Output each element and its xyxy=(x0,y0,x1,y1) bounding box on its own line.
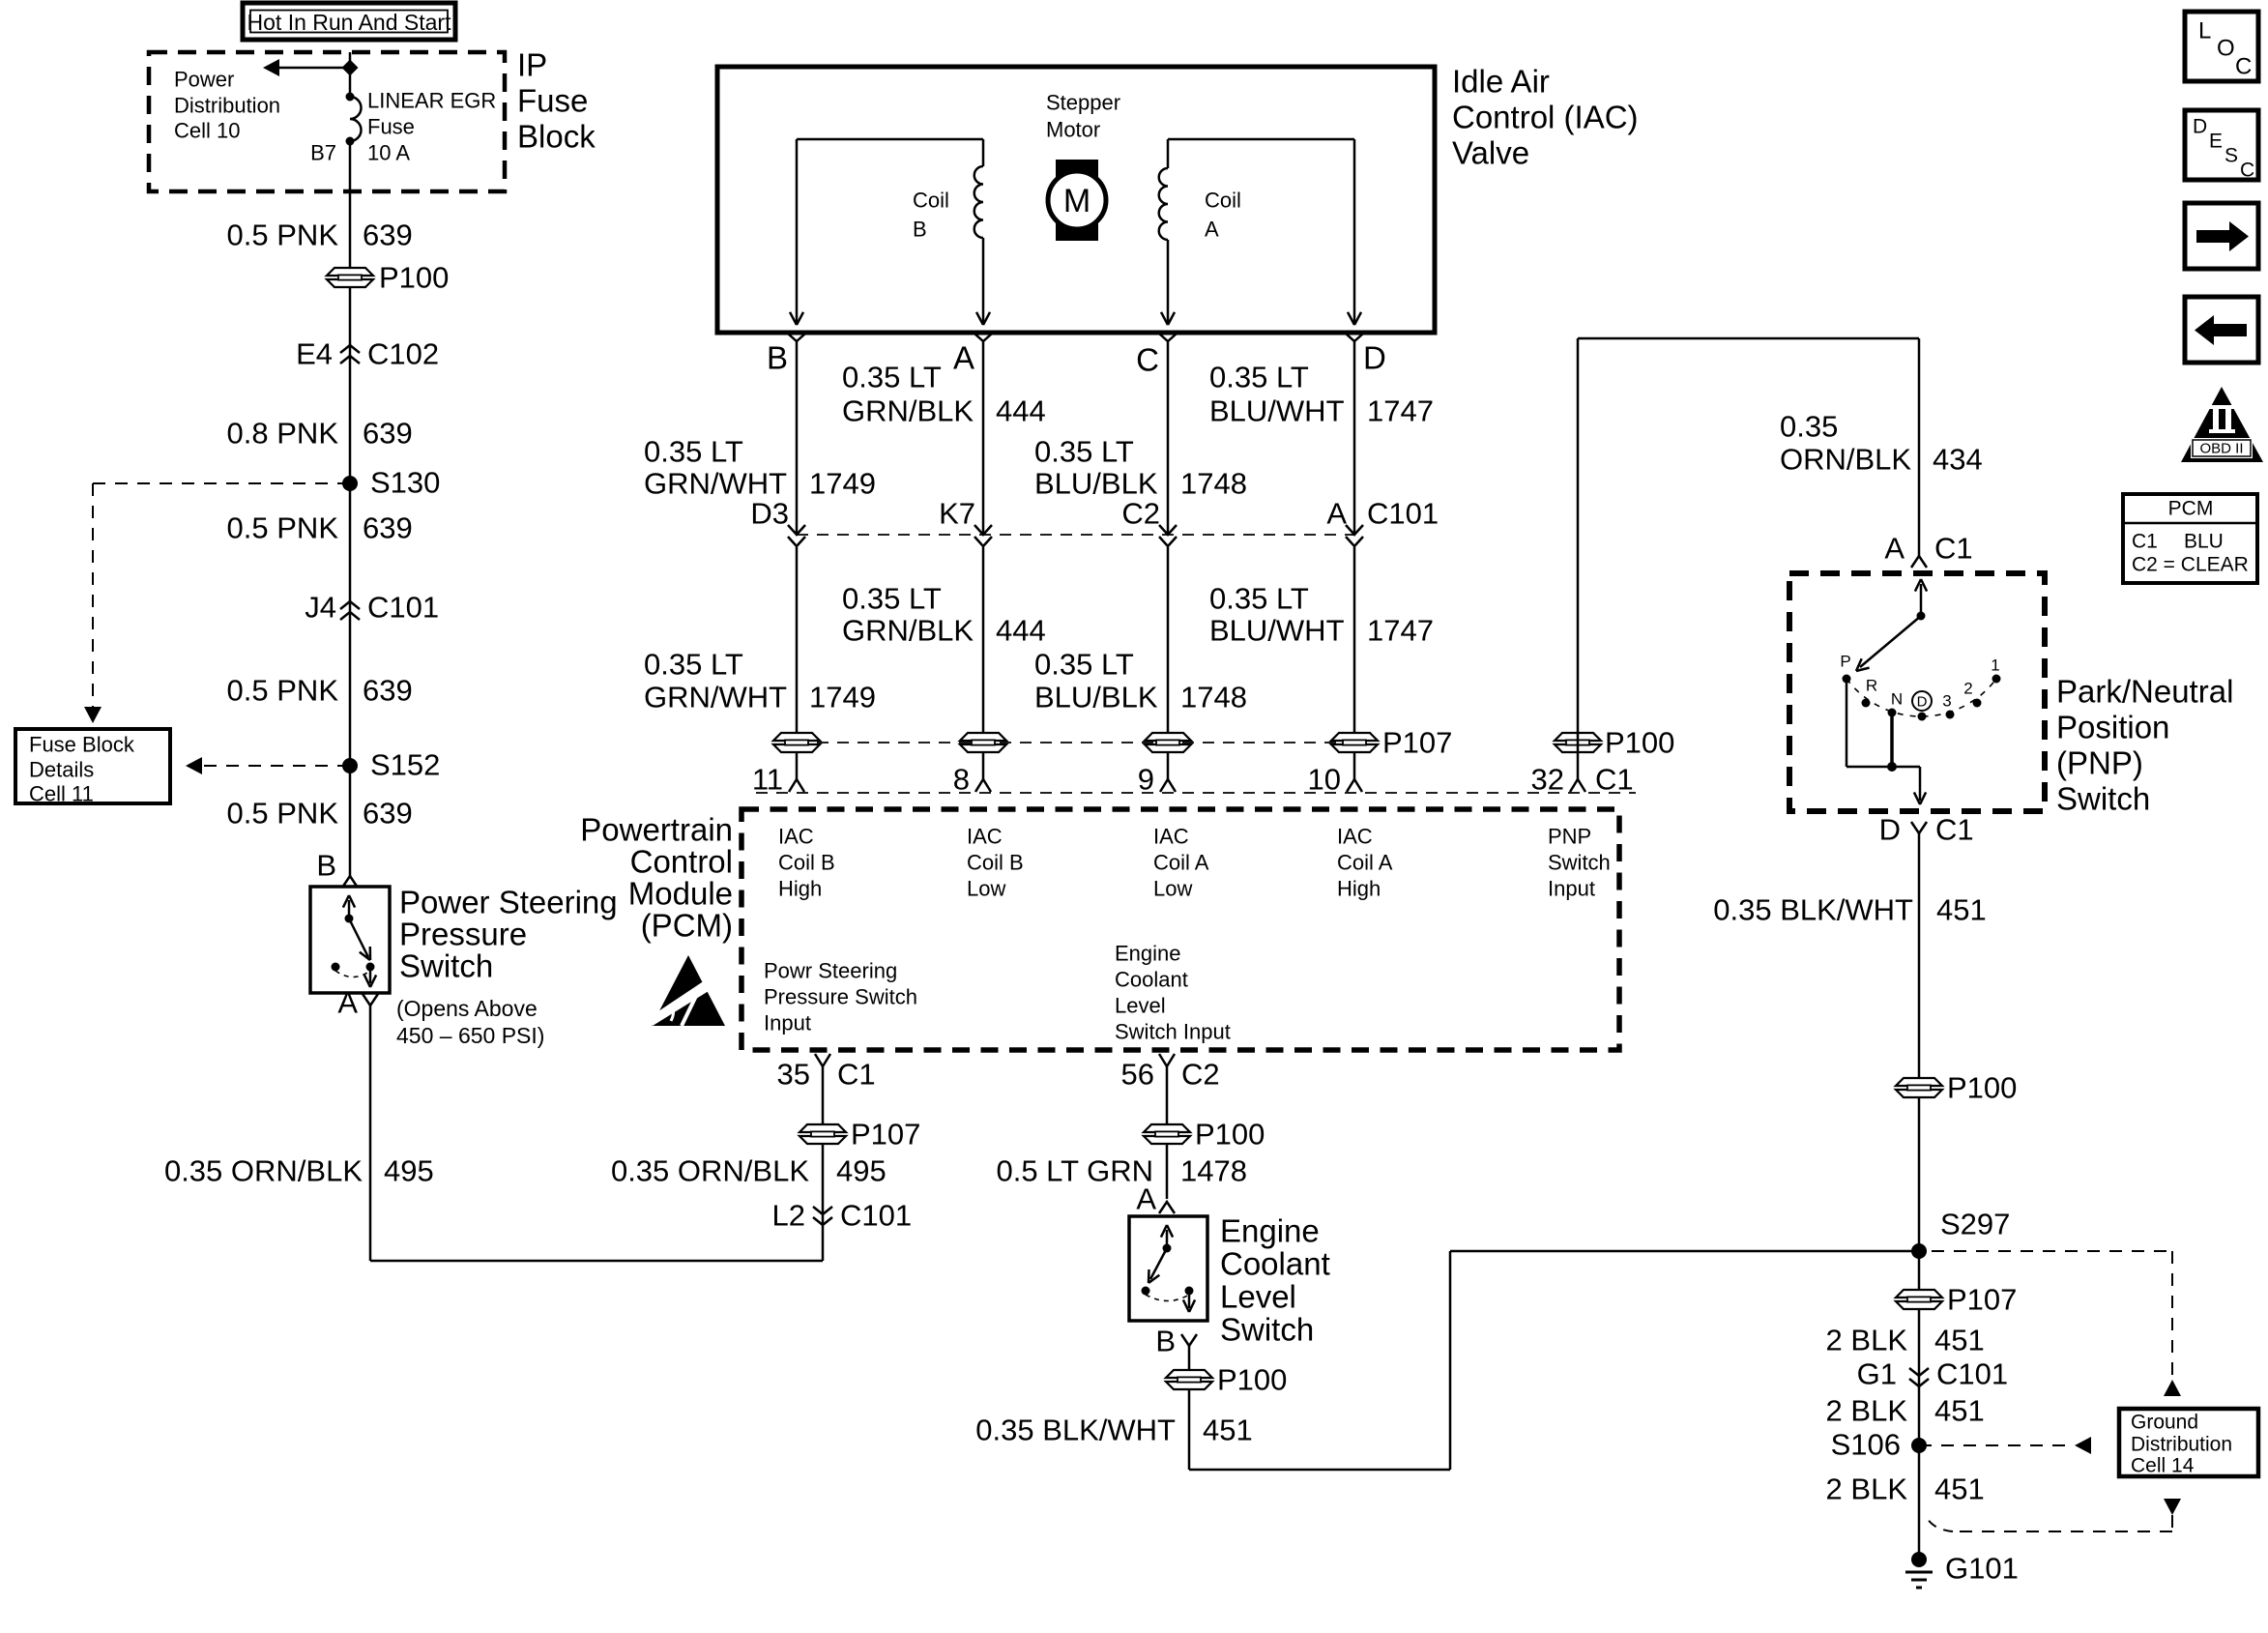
svg-text:BLU/WHT: BLU/WHT xyxy=(1209,394,1345,428)
svg-text:C101: C101 xyxy=(1936,1357,2008,1391)
svg-text:C1: C1 xyxy=(837,1058,876,1092)
svg-text:C: C xyxy=(2240,160,2254,182)
svg-text:D3: D3 xyxy=(750,497,789,531)
svg-text:Engine: Engine xyxy=(1220,1213,1320,1249)
svg-text:Cell 14: Cell 14 xyxy=(2131,1455,2195,1477)
svg-text:IP: IP xyxy=(517,47,547,83)
svg-text:BLU/BLK: BLU/BLK xyxy=(1034,681,1158,714)
svg-text:Coil A: Coil A xyxy=(1337,851,1393,875)
svg-text:2: 2 xyxy=(1963,680,1972,698)
svg-text:B7: B7 xyxy=(310,141,336,165)
svg-text:Input: Input xyxy=(1548,877,1595,901)
svg-text:C: C xyxy=(1136,342,1159,378)
svg-text:Power Steering: Power Steering xyxy=(399,885,618,920)
svg-text:639: 639 xyxy=(363,511,413,545)
svg-text:0.35 LT: 0.35 LT xyxy=(1034,435,1134,469)
svg-text:Block: Block xyxy=(517,119,596,155)
svg-text:Distribution: Distribution xyxy=(2131,1434,2232,1456)
svg-text:3: 3 xyxy=(1942,692,1951,711)
svg-text:1748: 1748 xyxy=(1180,467,1247,501)
svg-text:0.35 ORN/BLK: 0.35 ORN/BLK xyxy=(164,1154,363,1188)
svg-text:Cell 10: Cell 10 xyxy=(174,119,240,143)
svg-text:Switch: Switch xyxy=(399,948,493,984)
svg-text:1748: 1748 xyxy=(1180,681,1247,714)
svg-text:Details: Details xyxy=(29,758,94,782)
svg-text:Coil A: Coil A xyxy=(1153,851,1209,875)
svg-text:0.35 LT: 0.35 LT xyxy=(1209,582,1309,616)
svg-text:ORN/BLK: ORN/BLK xyxy=(1780,443,1911,477)
svg-text:Switch: Switch xyxy=(1220,1312,1314,1348)
svg-text:P107: P107 xyxy=(1382,726,1452,760)
svg-text:D: D xyxy=(1363,340,1386,376)
svg-text:Module: Module xyxy=(628,876,733,912)
svg-text:G1: G1 xyxy=(1857,1357,1897,1391)
svg-text:Switch: Switch xyxy=(2056,781,2150,817)
svg-text:A: A xyxy=(337,986,358,1020)
svg-text:451: 451 xyxy=(1203,1414,1253,1447)
svg-text:P: P xyxy=(1840,653,1850,671)
svg-text:C101: C101 xyxy=(840,1199,912,1233)
svg-text:C1: C1 xyxy=(1935,813,1974,847)
svg-text:Coil B: Coil B xyxy=(967,851,1024,875)
svg-text:IAC: IAC xyxy=(1337,825,1373,849)
svg-text:GRN/WHT: GRN/WHT xyxy=(644,467,787,501)
svg-text:A: A xyxy=(1884,532,1905,566)
svg-text:639: 639 xyxy=(363,417,413,451)
svg-text:S152: S152 xyxy=(370,748,440,782)
svg-text:Coil: Coil xyxy=(1205,189,1241,213)
svg-text:Level: Level xyxy=(1220,1279,1296,1315)
svg-text:Stepper: Stepper xyxy=(1046,91,1120,115)
svg-text:P100: P100 xyxy=(1217,1363,1287,1397)
svg-text:10: 10 xyxy=(1308,763,1341,797)
svg-text:451: 451 xyxy=(1936,893,1987,927)
svg-text:S297: S297 xyxy=(1940,1208,2010,1241)
svg-text:0.35 ORN/BLK: 0.35 ORN/BLK xyxy=(611,1154,809,1188)
svg-text:450 – 650 PSI): 450 – 650 PSI) xyxy=(396,1023,544,1048)
svg-text:C2: C2 xyxy=(1121,497,1160,531)
svg-text:Low: Low xyxy=(967,877,1005,901)
svg-text:P100: P100 xyxy=(1195,1118,1265,1152)
svg-text:1: 1 xyxy=(1991,656,1999,675)
svg-text:S106: S106 xyxy=(1831,1428,1901,1462)
svg-text:Engine: Engine xyxy=(1115,942,1181,966)
svg-text:Idle Air: Idle Air xyxy=(1452,64,1550,100)
svg-text:Fuse Block: Fuse Block xyxy=(29,733,135,757)
svg-text:10 A: 10 A xyxy=(367,141,410,165)
svg-text:0.35 LT: 0.35 LT xyxy=(1034,648,1134,682)
svg-text:L: L xyxy=(2198,18,2211,44)
svg-text:Power: Power xyxy=(174,68,234,92)
svg-text:Fuse: Fuse xyxy=(367,115,415,139)
svg-text:E4: E4 xyxy=(296,337,333,371)
svg-text:0.5 PNK: 0.5 PNK xyxy=(227,797,339,831)
svg-text:GRN/BLK: GRN/BLK xyxy=(842,394,974,428)
svg-text:451: 451 xyxy=(1934,1324,1985,1357)
svg-text:0.5 LT GRN: 0.5 LT GRN xyxy=(996,1154,1153,1188)
svg-text:LINEAR EGR: LINEAR EGR xyxy=(367,89,496,113)
svg-text:K7: K7 xyxy=(939,497,975,531)
svg-text:0.35: 0.35 xyxy=(1780,410,1838,444)
svg-text:C1: C1 xyxy=(2132,531,2158,553)
svg-text:L2: L2 xyxy=(772,1199,805,1233)
svg-text:GRN/WHT: GRN/WHT xyxy=(644,681,787,714)
svg-text:Valve: Valve xyxy=(1452,135,1529,171)
svg-text:PCM: PCM xyxy=(2168,498,2214,520)
svg-text:High: High xyxy=(1337,877,1381,901)
svg-text:(Opens Above: (Opens Above xyxy=(396,996,538,1021)
svg-text:0.8 PNK: 0.8 PNK xyxy=(227,417,339,451)
svg-text:BLU: BLU xyxy=(2184,531,2224,553)
svg-text:444: 444 xyxy=(996,394,1046,428)
svg-text:Fuse: Fuse xyxy=(517,83,588,119)
svg-text:11: 11 xyxy=(752,763,783,797)
svg-text:0.35 LT: 0.35 LT xyxy=(644,648,743,682)
svg-text:Park/Neutral: Park/Neutral xyxy=(2056,674,2233,710)
svg-text:0.5 PNK: 0.5 PNK xyxy=(227,219,339,252)
svg-text:P107: P107 xyxy=(1947,1283,2017,1317)
svg-text:M: M xyxy=(1063,183,1090,219)
svg-text:2 BLK: 2 BLK xyxy=(1826,1473,1908,1506)
svg-text:Coolant: Coolant xyxy=(1115,968,1188,992)
svg-text:451: 451 xyxy=(1934,1473,1985,1506)
svg-text:Coolant: Coolant xyxy=(1220,1246,1330,1282)
svg-text:C1: C1 xyxy=(1595,763,1634,797)
svg-text:BLU/BLK: BLU/BLK xyxy=(1034,467,1158,501)
svg-text:P100: P100 xyxy=(1605,726,1674,760)
svg-text:(PNP): (PNP) xyxy=(2056,745,2143,781)
svg-text:B: B xyxy=(913,218,927,242)
svg-text:P107: P107 xyxy=(851,1118,920,1152)
svg-text:Position: Position xyxy=(2056,710,2169,745)
svg-text:BLU/WHT: BLU/WHT xyxy=(1209,614,1345,648)
svg-text:0.35 LT: 0.35 LT xyxy=(1209,361,1309,394)
svg-text:J4: J4 xyxy=(305,591,336,625)
svg-text:1749: 1749 xyxy=(809,467,876,501)
svg-text:451: 451 xyxy=(1934,1394,1985,1428)
svg-text:639: 639 xyxy=(363,797,413,831)
svg-text:8: 8 xyxy=(953,763,970,797)
svg-text:0.35 LT: 0.35 LT xyxy=(842,582,942,616)
svg-text:2 BLK: 2 BLK xyxy=(1826,1394,1908,1428)
svg-text:Ground: Ground xyxy=(2131,1412,2198,1434)
svg-text:IAC: IAC xyxy=(967,825,1003,849)
svg-text:IAC: IAC xyxy=(1153,825,1189,849)
svg-text:Pressure: Pressure xyxy=(399,917,527,952)
svg-text:Switch Input: Switch Input xyxy=(1115,1020,1231,1044)
svg-text:Powr Steering: Powr Steering xyxy=(764,959,897,983)
svg-text:E: E xyxy=(2209,131,2223,153)
svg-text:C101: C101 xyxy=(1367,497,1439,531)
svg-text:A: A xyxy=(1326,497,1347,531)
svg-text:0.35 BLK/WHT: 0.35 BLK/WHT xyxy=(1713,893,1913,927)
svg-text:B: B xyxy=(1155,1325,1176,1358)
svg-text:1749: 1749 xyxy=(809,681,876,714)
svg-text:Coil B: Coil B xyxy=(778,851,835,875)
svg-text:Input: Input xyxy=(764,1011,811,1035)
svg-text:Distribution: Distribution xyxy=(174,94,280,118)
svg-text:C101: C101 xyxy=(367,591,439,625)
svg-text:Powertrain: Powertrain xyxy=(580,812,733,848)
svg-text:(PCM): (PCM) xyxy=(641,908,733,944)
svg-text:S130: S130 xyxy=(370,466,440,500)
svg-text:1747: 1747 xyxy=(1367,394,1434,428)
svg-text:Hot In Run And Start: Hot In Run And Start xyxy=(247,10,452,35)
svg-text:1478: 1478 xyxy=(1180,1154,1247,1188)
svg-text:0.5 PNK: 0.5 PNK xyxy=(227,511,339,545)
svg-text:N: N xyxy=(1891,690,1903,709)
svg-text:D: D xyxy=(2193,116,2207,138)
svg-text:B: B xyxy=(767,340,788,376)
svg-text:G101: G101 xyxy=(1945,1552,2019,1586)
svg-text:0.35 BLK/WHT: 0.35 BLK/WHT xyxy=(975,1414,1176,1447)
svg-text:D: D xyxy=(1879,813,1901,847)
svg-text:C102: C102 xyxy=(367,337,439,371)
svg-text:0.35 LT: 0.35 LT xyxy=(644,435,743,469)
svg-text:1747: 1747 xyxy=(1367,614,1434,648)
svg-text:0.35 LT: 0.35 LT xyxy=(842,361,942,394)
svg-text:O: O xyxy=(2217,36,2235,62)
svg-text:639: 639 xyxy=(363,219,413,252)
svg-text:444: 444 xyxy=(996,614,1046,648)
svg-text:Control (IAC): Control (IAC) xyxy=(1452,100,1639,135)
svg-text:Cell 11: Cell 11 xyxy=(29,782,94,806)
svg-text:639: 639 xyxy=(363,674,413,708)
svg-text:High: High xyxy=(778,877,822,901)
svg-text:Low: Low xyxy=(1153,877,1192,901)
svg-text:35: 35 xyxy=(777,1058,810,1092)
svg-text:434: 434 xyxy=(1933,443,1983,477)
svg-text:Coil: Coil xyxy=(913,189,949,213)
svg-text:0.5 PNK: 0.5 PNK xyxy=(227,674,339,708)
svg-text:C1: C1 xyxy=(1934,532,1973,566)
svg-text:Level: Level xyxy=(1115,994,1166,1018)
svg-text:PNP: PNP xyxy=(1548,825,1591,849)
svg-text:32: 32 xyxy=(1531,763,1564,797)
svg-text:OBD II: OBD II xyxy=(2199,441,2243,457)
svg-text:P100: P100 xyxy=(379,261,449,295)
svg-text:56: 56 xyxy=(1121,1058,1154,1092)
svg-text:Motor: Motor xyxy=(1046,118,1100,142)
svg-text:C: C xyxy=(2235,54,2252,80)
svg-text:Switch: Switch xyxy=(1548,851,1611,875)
svg-text:D: D xyxy=(1917,694,1928,711)
svg-text:C2: C2 xyxy=(1181,1058,1220,1092)
svg-text:IAC: IAC xyxy=(778,825,814,849)
svg-text:C2 = CLEAR: C2 = CLEAR xyxy=(2132,554,2249,576)
svg-text:GRN/BLK: GRN/BLK xyxy=(842,614,974,648)
svg-text:A: A xyxy=(953,340,974,376)
svg-text:495: 495 xyxy=(836,1154,887,1188)
svg-text:B: B xyxy=(316,849,336,883)
svg-text:2 BLK: 2 BLK xyxy=(1826,1324,1908,1357)
svg-text:S: S xyxy=(2224,145,2238,167)
svg-text:A: A xyxy=(1205,218,1219,242)
svg-text:495: 495 xyxy=(384,1154,434,1188)
svg-text:A: A xyxy=(1136,1182,1156,1216)
svg-text:R: R xyxy=(1866,677,1877,695)
svg-text:Control: Control xyxy=(630,844,733,880)
svg-text:Pressure Switch: Pressure Switch xyxy=(764,985,917,1009)
svg-text:P100: P100 xyxy=(1947,1071,2017,1105)
svg-text:9: 9 xyxy=(1138,763,1154,797)
